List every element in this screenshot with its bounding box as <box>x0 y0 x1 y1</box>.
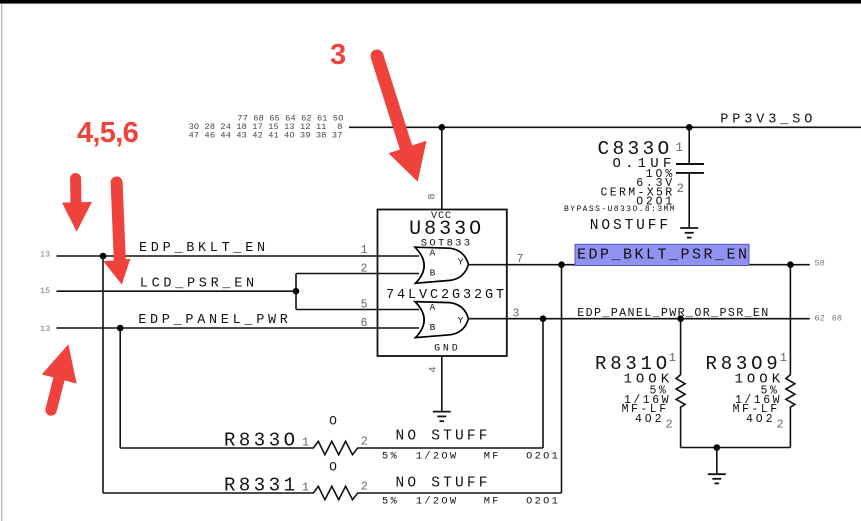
svg-text:15: 15 <box>40 286 50 296</box>
svg-text:1: 1 <box>780 351 787 365</box>
node junction pin8 stem on rail <box>439 124 446 131</box>
capacitor C8330 plates <box>676 164 704 173</box>
svg-text:1: 1 <box>361 244 368 257</box>
annotation red arrow to U8330 <box>377 56 427 182</box>
OR gate 1 of U8330 <box>415 247 468 283</box>
wire pin 5 stub <box>296 309 419 311</box>
node junction EDP_PANEL_PWR <box>117 325 124 332</box>
OR gate 2 of U8330 <box>415 302 468 338</box>
svg-text:58: 58 <box>815 258 825 268</box>
svg-text:2: 2 <box>361 479 368 493</box>
svg-text:1: 1 <box>302 435 309 449</box>
ground symbol C8330 <box>680 228 698 238</box>
capacitor C8330 top lead <box>688 127 690 163</box>
svg-text:O: O <box>329 459 337 474</box>
svg-text:5% 1/2OW MF O2O1: 5% 1/2OW MF O2O1 <box>382 450 560 462</box>
svg-text:8: 8 <box>427 193 439 199</box>
svg-text:2: 2 <box>361 262 368 275</box>
svg-text:Y: Y <box>458 315 464 326</box>
node junction ground stem <box>714 444 721 451</box>
wire pin 2 stub <box>296 273 419 275</box>
svg-text:5% 1/2OW MF O2O1: 5% 1/2OW MF O2O1 <box>382 495 560 507</box>
wire GND pin 4 stem <box>441 356 443 411</box>
svg-text:B: B <box>430 322 436 333</box>
svg-text:4,5,6: 4,5,6 <box>77 117 139 149</box>
svg-text:1: 1 <box>669 351 676 365</box>
svg-text:4O2: 4O2 <box>635 413 664 426</box>
svg-text:68: 68 <box>832 314 842 324</box>
svg-text:62: 62 <box>815 314 825 324</box>
wire pin 3 output net <box>468 318 809 320</box>
svg-text:2: 2 <box>777 418 784 432</box>
annotation red arrow long down <box>103 183 130 285</box>
svg-text:NO STUFF: NO STUFF <box>396 428 491 444</box>
svg-text:4: 4 <box>427 366 439 372</box>
annotation red arrow small down <box>62 179 92 232</box>
svg-text:R8331: R8331 <box>224 474 299 496</box>
wire EDP_BKLT_EN drop to R8331 <box>102 256 104 493</box>
ground symbol pulldowns <box>708 474 726 483</box>
svg-text:EDP_BKLT_EN: EDP_BKLT_EN <box>139 241 269 256</box>
svg-text:2: 2 <box>361 434 368 448</box>
svg-text:EDP_BKLT_PSR_EN: EDP_BKLT_PSR_EN <box>577 247 750 264</box>
wire EDP_BKLT_EN input <box>57 255 420 257</box>
svg-text:3: 3 <box>513 308 520 321</box>
svg-text:BYPASS-U833O.8:3MM: BYPASS-U833O.8:3MM <box>564 205 676 214</box>
wire VCC pin 8 stem <box>441 127 443 209</box>
wire R8331 riser to pin7 net <box>561 265 563 493</box>
node junction LCD_PSR_EN branch <box>293 288 300 295</box>
svg-text:1: 1 <box>302 480 309 494</box>
svg-text:47 46 44 43 42 41 4O 39 38 37: 47 46 44 43 42 41 4O 39 38 37 <box>189 131 343 141</box>
svg-text:A: A <box>429 302 435 313</box>
wire EDP_PANEL_PWR drop to R8330 <box>119 328 121 448</box>
node junction R8310 on pin3 net <box>677 315 684 322</box>
wire R8330 riser to pin3 net <box>542 319 544 448</box>
node junction R8309 riser on pin7 net <box>787 261 794 268</box>
svg-text:EDP_PANEL_PWR: EDP_PANEL_PWR <box>138 313 291 328</box>
node junction R8331 riser on pin7 net <box>558 261 565 268</box>
svg-text:13: 13 <box>40 250 50 260</box>
svg-text:13: 13 <box>40 324 50 334</box>
wire ground stem <box>716 448 718 474</box>
capacitor C8330 bottom lead <box>688 174 690 227</box>
svg-text:GND: GND <box>434 343 460 354</box>
resistor R8330 <box>120 414 560 463</box>
svg-text:5: 5 <box>361 299 368 312</box>
svg-text:A: A <box>429 247 435 258</box>
svg-text:4O2: 4O2 <box>746 413 775 426</box>
node junction R8330 riser on pin3 net <box>540 315 547 322</box>
svg-text:6: 6 <box>361 317 368 330</box>
ground symbol U8330 <box>433 412 451 422</box>
net EDP_BKLT_PSR_EN highlighted label <box>575 244 750 265</box>
op-amp U8330 body box <box>378 210 507 357</box>
svg-text:LCD_PSR_EN: LCD_PSR_EN <box>140 276 258 291</box>
annotation red arrow diagonal up <box>42 344 77 410</box>
svg-text:O: O <box>329 414 337 429</box>
resistor R8331 <box>103 459 562 507</box>
wire resistor bottom rail <box>681 447 791 449</box>
wire PP3V3_S0 rail <box>349 126 861 128</box>
svg-text:2: 2 <box>676 182 684 196</box>
svg-text:R833O: R833O <box>224 429 299 451</box>
svg-text:1: 1 <box>675 141 683 155</box>
wire LCD_PSR_EN input <box>57 290 297 292</box>
svg-text:74LVC2G32GT: 74LVC2G32GT <box>386 288 507 303</box>
svg-text:7: 7 <box>517 253 524 266</box>
svg-text:NOSTUFF: NOSTUFF <box>590 218 671 234</box>
wire pin 7 output net <box>468 264 809 266</box>
svg-text:EDP_PANEL_PWR_OR_PSR_EN: EDP_PANEL_PWR_OR_PSR_EN <box>577 306 769 320</box>
svg-text:2: 2 <box>666 418 673 432</box>
node junction C8330 on rail <box>686 124 693 131</box>
svg-text:PP3V3_SO: PP3V3_SO <box>720 113 816 128</box>
svg-text:3: 3 <box>330 39 346 71</box>
resistor R8310 <box>595 319 685 448</box>
svg-text:B: B <box>430 268 436 279</box>
resistor R8309 <box>706 265 795 448</box>
svg-text:Y: Y <box>458 256 464 267</box>
wire branch vertical to pins 2 and 5 <box>295 274 297 310</box>
node junction EDP_BKLT_EN <box>100 253 107 260</box>
svg-text:NO STUFF: NO STUFF <box>396 475 491 491</box>
wire EDP_PANEL_PWR input pin 6 <box>57 327 420 329</box>
